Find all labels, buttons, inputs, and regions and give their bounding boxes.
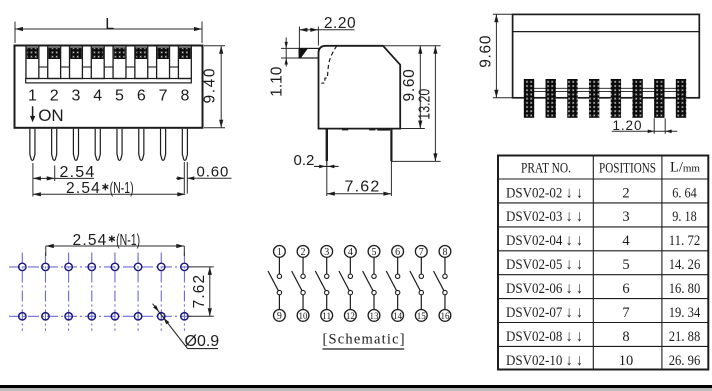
schematic switch 2/10 (292, 246, 309, 322)
dim 1.10 (281, 38, 299, 67)
hole pad r2c6 (134, 313, 141, 320)
hole pad r2c7 (158, 313, 165, 320)
svg-text:1: 1 (277, 247, 282, 258)
switch slot 8 (178, 46, 191, 79)
switch slot 6 (135, 46, 148, 79)
dim 2.54 (33, 163, 94, 197)
switch knob 2 (hatched) (49, 48, 60, 59)
svg-text:5: 5 (372, 247, 377, 258)
pin 2 (52, 129, 57, 161)
switch knob 3 (hatched) (71, 48, 82, 59)
svg-text:L/mm: L/mm (670, 160, 700, 176)
svg-text:16: 16 (440, 311, 450, 321)
hatched pin 3 (bottom view) (567, 79, 577, 118)
dim 9.40 (204, 46, 225, 128)
svg-text:14. 26: 14. 26 (669, 257, 701, 273)
svg-text:1: 1 (28, 88, 37, 105)
svg-text:11. 72: 11. 72 (669, 233, 701, 249)
pin 6 (139, 129, 144, 161)
svg-text:16. 80: 16. 80 (669, 281, 701, 297)
svg-text:14: 14 (393, 311, 403, 321)
svg-text:PRAT NO.: PRAT NO. (521, 160, 571, 176)
svg-text:9: 9 (277, 311, 282, 322)
right pin (side) (390, 129, 392, 161)
schematic switch 8/16 (434, 246, 451, 322)
dim 2.54*(N-1) (33, 193, 185, 195)
switch slot 1 (26, 46, 39, 79)
hatched pin 8 (bottom view) (676, 79, 686, 118)
switch slot 3 (70, 46, 83, 79)
bottom mold bumps (342, 129, 348, 131)
svg-text:DSV02-06 ↓ ↓: DSV02-06 ↓ ↓ (506, 280, 583, 297)
svg-text:2.54: 2.54 (66, 180, 101, 197)
svg-text:10: 10 (299, 311, 309, 321)
svg-text:8: 8 (442, 247, 447, 258)
svg-text:2: 2 (301, 247, 306, 258)
svg-text:6: 6 (395, 247, 400, 258)
dia 0.9 leader (153, 304, 188, 349)
switch knob 8 (hatched) (179, 48, 190, 59)
hole pad r1c4 (88, 263, 95, 270)
svg-text:7: 7 (419, 247, 424, 258)
bottom ledge (26, 79, 192, 83)
svg-text:7.62: 7.62 (345, 179, 381, 196)
svg-text:(N-1): (N-1) (110, 180, 134, 197)
pin strip lines (524, 87, 686, 89)
dim 0.60 (176, 162, 232, 194)
pin 8 (182, 129, 187, 161)
schematic switch 3/11 (315, 246, 332, 322)
hatched pin 2 (bottom view) (546, 79, 556, 118)
schematic switch 5/13 (363, 246, 380, 322)
actuator wedge (299, 48, 318, 58)
switch knob 1 (hatched) (27, 48, 38, 59)
svg-text:L: L (105, 16, 114, 33)
dim 2.20 (299, 27, 354, 49)
svg-text:15: 15 (417, 311, 427, 321)
centerlines (9, 253, 194, 331)
svg-text:7: 7 (159, 88, 168, 105)
dim 7.62 pcb (189, 267, 214, 316)
switch slot 4 (91, 46, 104, 79)
hole pad r1c3 (65, 263, 72, 270)
pin 5 (117, 129, 122, 161)
dim 9.60 (bottom view) (493, 14, 513, 98)
svg-text:Ø0.9: Ø0.9 (185, 333, 220, 350)
switch slot 5 (113, 46, 126, 79)
svg-text:3: 3 (324, 247, 329, 258)
hatched pin 6 (bottom view) (632, 79, 642, 118)
hole pad r2c1 (19, 313, 26, 320)
hole pad r1c2 (42, 263, 49, 270)
hole pad r1c5 (111, 263, 118, 270)
svg-text:6. 64: 6. 64 (672, 185, 697, 201)
svg-text:POSITIONS: POSITIONS (599, 160, 656, 176)
svg-text:5: 5 (622, 257, 629, 273)
hole pad r1c8 (181, 263, 188, 270)
hatched pin 7 (bottom view) (654, 79, 664, 118)
svg-text:1.20: 1.20 (613, 118, 643, 133)
hole pad r1c7 (158, 263, 165, 270)
switch slot 7 (157, 46, 170, 79)
svg-text:0.2: 0.2 (294, 152, 315, 169)
hole pad r2c3 (65, 313, 72, 320)
svg-text:21. 88: 21. 88 (669, 329, 701, 345)
hole pad r2c5 (111, 313, 118, 320)
schematic switch 1/9 (268, 246, 285, 322)
rib line (39, 66, 48, 68)
rib line (148, 66, 157, 68)
svg-text:6: 6 (137, 88, 146, 105)
svg-text:8: 8 (622, 329, 629, 345)
svg-text:4: 4 (93, 88, 102, 105)
svg-text:DSV02-04 ↓ ↓: DSV02-04 ↓ ↓ (506, 232, 583, 249)
rib line (170, 66, 179, 68)
svg-text:4: 4 (622, 233, 630, 249)
dim 0.2 (314, 165, 339, 167)
svg-text:(N-1): (N-1) (116, 232, 140, 249)
switch knob 6 (hatched) (136, 48, 147, 59)
switch knob 4 (hatched) (92, 48, 103, 59)
dim 1.20 (612, 118, 677, 134)
svg-text:26. 96: 26. 96 (669, 353, 701, 369)
pin 1 (30, 129, 35, 161)
svg-text:ON: ON (38, 106, 64, 125)
svg-text:DSV02-10 ↓ ↓: DSV02-10 ↓ ↓ (506, 352, 583, 369)
dim 9.60 (side) (383, 46, 441, 129)
svg-text:10: 10 (619, 353, 634, 369)
hole pad r2c8 (181, 313, 188, 320)
rib line (104, 66, 113, 68)
inner edge line (513, 31, 700, 33)
left pin (side) (326, 129, 328, 161)
svg-text:12: 12 (346, 311, 355, 321)
dim 7.62 (327, 161, 392, 196)
side-view body (319, 46, 401, 129)
svg-text:2.54: 2.54 (60, 164, 96, 181)
rib line (82, 66, 91, 68)
DIP switch front-view body (15, 46, 203, 128)
schematic switch 7/15 (410, 246, 427, 322)
svg-text:8: 8 (180, 88, 189, 105)
hatched pin 1 (bottom view) (524, 79, 534, 118)
pin 3 (73, 129, 78, 161)
svg-text:2: 2 (50, 88, 59, 105)
svg-text:11: 11 (322, 311, 331, 321)
hole pad r1c6 (134, 263, 141, 270)
hidden dashed outline (321, 46, 336, 83)
svg-text:6: 6 (622, 281, 629, 297)
svg-text:13: 13 (370, 311, 380, 321)
svg-text:3: 3 (72, 88, 81, 105)
svg-text:DSV02-02 ↓ ↓: DSV02-02 ↓ ↓ (506, 184, 583, 201)
svg-text:DSV02-05 ↓ ↓: DSV02-05 ↓ ↓ (506, 256, 583, 273)
svg-text:2.20: 2.20 (324, 15, 356, 32)
svg-text:2: 2 (622, 185, 629, 201)
svg-text:1.10: 1.10 (269, 66, 286, 97)
dim 13.20 (391, 46, 440, 162)
hole pad r2c2 (42, 313, 49, 320)
svg-text:2.54: 2.54 (73, 232, 108, 249)
schematic switch 6/14 (386, 246, 403, 322)
svg-text:9. 18: 9. 18 (672, 209, 697, 225)
svg-text:4: 4 (348, 247, 353, 258)
svg-text:0.60: 0.60 (197, 164, 230, 181)
svg-text:DSV02-03 ↓ ↓: DSV02-03 ↓ ↓ (506, 208, 583, 225)
pin 4 (95, 129, 100, 161)
switch knob 5 (hatched) (114, 48, 125, 59)
svg-text:DSV02-08 ↓ ↓: DSV02-08 ↓ ↓ (506, 328, 583, 345)
bottom rule bar (0, 385, 712, 388)
hole pad r2c4 (88, 313, 95, 320)
svg-text:9.40: 9.40 (202, 67, 219, 104)
switch slot 2 (48, 46, 61, 79)
dim 2.54*(N-1) pcb (46, 246, 185, 256)
schematic switch 4/12 (339, 246, 356, 322)
hatched pin 4 (bottom view) (589, 79, 599, 118)
svg-text:9.60: 9.60 (477, 35, 494, 68)
rib line (61, 66, 70, 68)
pin 7 (161, 129, 166, 161)
hatched pin 5 (bottom view) (611, 79, 621, 118)
switch knob 7 (hatched) (158, 48, 169, 59)
svg-text:13.20: 13.20 (416, 88, 433, 119)
svg-text:[Schematic]: [Schematic] (323, 332, 406, 348)
svg-text:DSV02-07 ↓ ↓: DSV02-07 ↓ ↓ (506, 304, 583, 321)
hole pad r1c1 (19, 263, 26, 270)
svg-text:19. 34: 19. 34 (669, 305, 701, 321)
svg-text:7.62: 7.62 (191, 274, 208, 309)
rib line (126, 66, 135, 68)
svg-text:7: 7 (622, 305, 629, 321)
ON arrow (32, 106, 34, 116)
bottom-view body (513, 14, 700, 97)
svg-text:5: 5 (115, 88, 124, 105)
dim L (15, 22, 202, 44)
svg-text:3: 3 (622, 209, 629, 225)
